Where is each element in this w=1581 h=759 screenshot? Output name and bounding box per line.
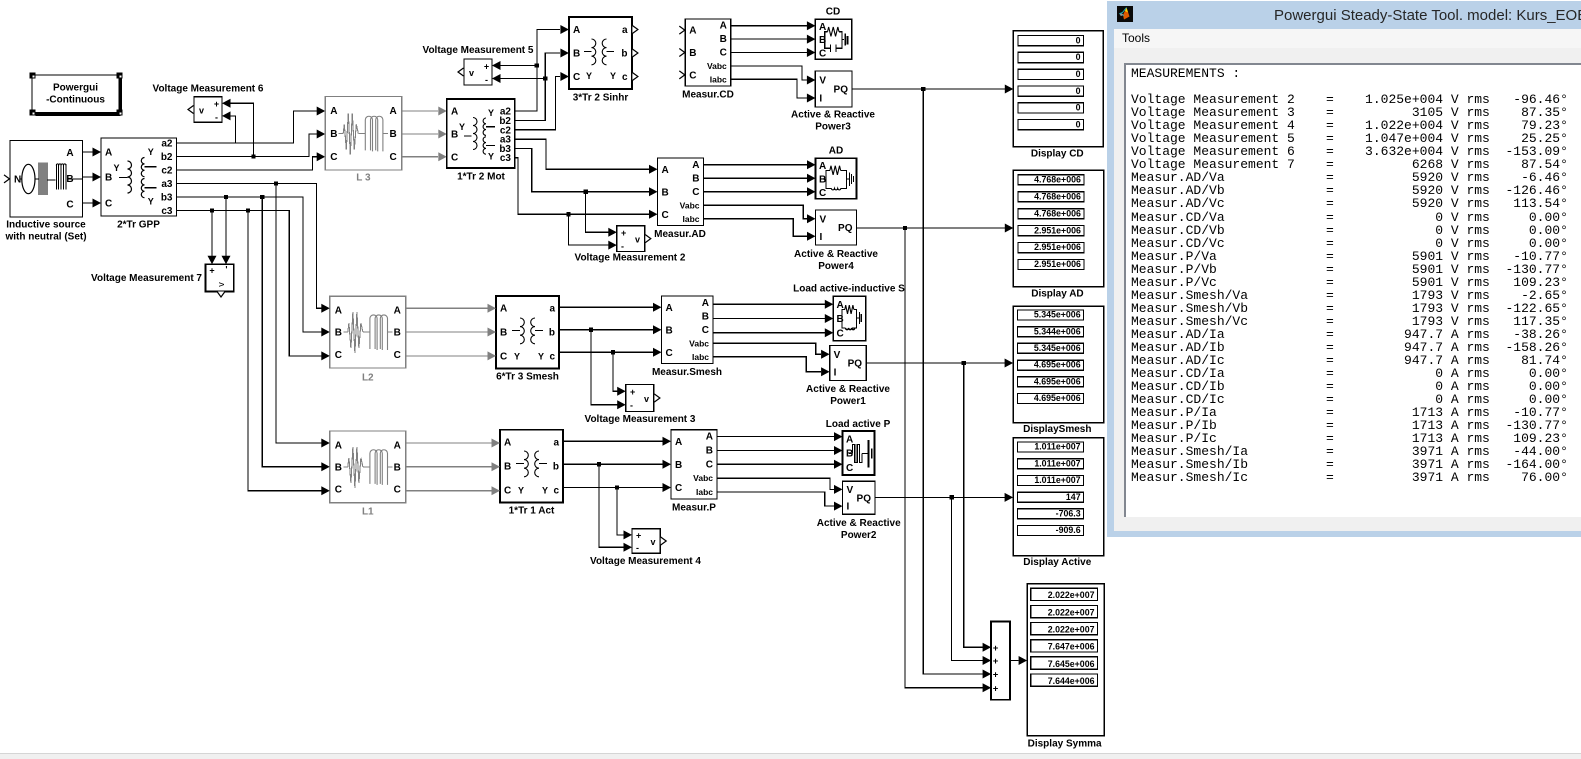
svg-text:C: C <box>335 350 342 361</box>
svg-text:Load active-inductive S: Load active-inductive S <box>793 284 905 295</box>
svg-text:Active & Reactive: Active & Reactive <box>806 384 890 395</box>
svg-text:0: 0 <box>1076 103 1081 113</box>
svg-text:A: A <box>692 160 699 171</box>
svg-text:PQ: PQ <box>857 493 872 504</box>
wire L3 B to Mot B <box>402 133 438 135</box>
svg-text:C: C <box>666 348 673 359</box>
svg-text:Vabc: Vabc <box>689 338 709 348</box>
svg-text:Measur.Smesh: Measur.Smesh <box>652 367 722 378</box>
junction dot at 276, 183.5 <box>274 181 278 185</box>
wire Measur.P C to Load P C <box>717 463 834 465</box>
svg-text:B: B <box>837 314 844 325</box>
svg-text:C: C <box>692 187 699 198</box>
wire Power3 PQ to Display CD and junction <box>852 88 1005 90</box>
svg-text:+: + <box>636 531 641 541</box>
voltage measurement block VM2 Voltage Measurement 2 <box>575 226 686 264</box>
inductance block L1 <box>330 431 406 518</box>
svg-text:2.951e+006: 2.951e+006 <box>1034 242 1081 252</box>
wire Act a to Measur.P A <box>563 440 663 442</box>
svg-text:B: B <box>720 34 727 45</box>
svg-text:L 3: L 3 <box>356 173 371 184</box>
svg-text:Iabc: Iabc <box>696 487 713 497</box>
wire Power4 PQ to Display AD and junction <box>857 227 1006 229</box>
svg-text:A: A <box>330 106 337 117</box>
wire Measur.P A to Load P A <box>717 436 834 438</box>
transformer block 6*Tr 3 Smesh <box>496 296 559 383</box>
svg-text:C: C <box>689 70 696 81</box>
svg-text:with neutral (Set): with neutral (Set) <box>4 232 86 243</box>
svg-text:2.022e+007: 2.022e+007 <box>1048 624 1095 634</box>
voltage measurement block VM6 Voltage Measurement 6 <box>153 84 264 123</box>
svg-text:c: c <box>549 351 555 362</box>
wire Power3 junction down to sum input 3 <box>923 89 983 674</box>
svg-text:-: - <box>215 113 218 123</box>
display block Display Active <box>1013 438 1103 569</box>
svg-text:-: - <box>630 401 633 411</box>
svg-text:C: C <box>837 329 844 340</box>
svg-text:+: + <box>209 266 214 276</box>
svg-text:2.022e+007: 2.022e+007 <box>1048 590 1095 600</box>
svg-text:I: I <box>819 94 822 105</box>
svg-text:C: C <box>394 350 401 361</box>
svg-text:-706.3: -706.3 <box>1056 508 1081 518</box>
svg-text:2.022e+007: 2.022e+007 <box>1048 607 1095 617</box>
wire L2 C to Smesh C <box>406 355 488 357</box>
load block Load active P (resistive load) <box>826 419 891 475</box>
wire Measur.AD Iabc to Power4 I <box>704 219 808 237</box>
svg-text:-909.6: -909.6 <box>1056 525 1081 535</box>
wire Measur.Smesh B to Load S B <box>713 318 825 320</box>
svg-text:1*Tr 1 Act: 1*Tr 1 Act <box>509 506 555 517</box>
svg-text:C: C <box>330 152 337 163</box>
wire b3 branch down to L1 B <box>262 197 321 467</box>
power block Active & Reactive Power3 <box>791 71 875 133</box>
svg-text:V: V <box>819 76 826 87</box>
wire L3 A to Mot A <box>402 110 438 112</box>
wire Measur.AD A to AD A <box>704 164 808 166</box>
svg-text:+: + <box>993 670 999 681</box>
wire Smesh b to Measur.Smesh B <box>559 329 653 331</box>
svg-text:A: A <box>504 438 511 449</box>
svg-text:C: C <box>846 463 853 474</box>
wire Power1 PQ to DisplaySmesh and junction <box>866 362 1005 364</box>
wire Measur.Smesh A to Load S A <box>713 303 825 305</box>
wire Measur.CD Iabc to Power3 I <box>731 79 807 98</box>
svg-text:Power2: Power2 <box>841 530 877 541</box>
wire b2 branch to VM6 plus <box>231 103 254 156</box>
svg-text:Active & Reactive: Active & Reactive <box>817 518 901 529</box>
svg-text:0: 0 <box>1076 52 1081 62</box>
wire GPP a3 to L2 A <box>177 184 322 309</box>
svg-text:B: B <box>335 328 342 339</box>
svg-text:4.768e+006: 4.768e+006 <box>1034 191 1081 201</box>
svg-text:Y: Y <box>518 486 524 496</box>
wire GPP c3 to L2 C <box>177 211 322 356</box>
svg-text:A: A <box>66 148 73 159</box>
wire Power2 junction down to sum input 2 <box>952 497 983 660</box>
svg-text:A: A <box>706 432 713 443</box>
svg-text:Y: Y <box>113 163 119 173</box>
svg-text:Active & Reactive: Active & Reactive <box>794 249 878 260</box>
svg-text:-: - <box>636 543 639 553</box>
svg-text:b: b <box>553 462 559 473</box>
wire GPP b2 to L3 B <box>177 134 318 157</box>
wire Power4 junction down to sum input 4 <box>905 228 983 688</box>
svg-text:AD: AD <box>829 146 843 157</box>
wire Measur.P Vabc to Power2 V <box>717 478 834 489</box>
svg-text:c: c <box>622 72 628 83</box>
junction dot at 923.2, 89 <box>921 87 925 91</box>
wire Measur.CD B to CD B <box>731 38 807 40</box>
wire Mot b2 to Sinhr B <box>515 53 560 121</box>
svg-text:+: + <box>993 656 999 667</box>
svg-text:Power4: Power4 <box>818 261 854 272</box>
svg-text:C: C <box>706 459 713 470</box>
wire b2 branch to VM5 minus <box>501 78 546 80</box>
wire L1 C to Act C <box>406 490 492 492</box>
svg-text:N: N <box>14 175 21 186</box>
svg-text:Voltage Measurement 3: Voltage Measurement 3 <box>585 414 696 425</box>
svg-text:B: B <box>662 187 669 198</box>
svg-text:A: A <box>335 306 342 317</box>
svg-text:v: v <box>469 68 474 78</box>
svg-text:0: 0 <box>1076 35 1081 45</box>
svg-text:Display AD: Display AD <box>1031 289 1083 300</box>
svg-text:B: B <box>702 311 709 322</box>
svg-text:C: C <box>819 188 826 199</box>
wire source A to GPP A <box>83 151 93 153</box>
svg-text:a: a <box>553 438 559 449</box>
power block Active & Reactive Power2 <box>817 481 901 541</box>
junction dot at 617, 487.5 <box>615 485 619 489</box>
transformer block 1*Tr 2 Mot <box>447 99 515 183</box>
wire a2 branch to VM6 minus <box>231 116 236 143</box>
svg-text:Display Symma: Display Symma <box>1028 739 1102 750</box>
load block CD (parallel RC load) <box>815 7 851 60</box>
wire Mot a2 to Sinhr A <box>515 30 560 112</box>
junction dot at 599, 464.3 <box>597 462 601 466</box>
svg-text:Measur.P: Measur.P <box>672 503 716 514</box>
wire Measur.AD B to AD B <box>704 177 808 179</box>
svg-text:Y: Y <box>542 486 548 496</box>
svg-text:4.695e+006: 4.695e+006 <box>1034 376 1081 386</box>
power block Active & Reactive Power1 <box>806 346 890 408</box>
svg-text:PQ: PQ <box>834 85 849 96</box>
svg-text:c3: c3 <box>500 153 512 164</box>
wire Mot a3 to Measur.AD A <box>515 139 649 169</box>
wire Smesh b branch to VM3 minus <box>591 330 618 405</box>
svg-text:B: B <box>389 129 396 140</box>
svg-text:A: A <box>666 303 673 314</box>
svg-text:Power3: Power3 <box>815 122 851 133</box>
svg-text:+: + <box>621 228 626 238</box>
svg-text:C: C <box>720 48 727 59</box>
svg-text:Iabc: Iabc <box>710 74 727 84</box>
svg-text:5.345e+006: 5.345e+006 <box>1034 343 1081 353</box>
powergui block Powergui -Continuous <box>30 73 123 117</box>
svg-text:-: - <box>621 242 624 252</box>
wire Measur.Smesh C to Load S C <box>713 332 825 334</box>
svg-text:Y: Y <box>148 197 154 207</box>
wire a2 branch to VM5 plus <box>501 65 537 67</box>
svg-text:-Continuous: -Continuous <box>46 95 105 106</box>
svg-text:1*Tr 2 Mot: 1*Tr 2 Mot <box>457 172 505 183</box>
svg-text:c3: c3 <box>161 206 173 217</box>
wire Measur.P B to Load P B <box>717 450 834 452</box>
junction dot at 951.6, 497.4 <box>949 495 953 499</box>
junction dot at 248, 210.5 <box>246 208 250 212</box>
svg-text:A: A <box>451 107 458 118</box>
svg-text:B: B <box>706 445 713 456</box>
svg-text:Power1: Power1 <box>830 396 866 407</box>
svg-text:C: C <box>451 153 458 164</box>
wire c3 branch to VM2 minus <box>569 214 609 245</box>
svg-text:PQ: PQ <box>848 359 863 370</box>
svg-text:6*Tr 3 Smesh: 6*Tr 3 Smesh <box>496 372 559 383</box>
svg-text:CD: CD <box>826 7 840 18</box>
junction dot at 585.6, 191.8 <box>583 190 587 194</box>
svg-text:': ' <box>225 265 227 275</box>
wire Measur.CD Vabc to Power3 V <box>731 66 807 80</box>
junction dot at 262.2, 197 <box>260 195 264 199</box>
svg-text:C: C <box>504 486 511 497</box>
wire Measur.AD C to AD C <box>704 191 808 193</box>
svg-text:a2: a2 <box>161 139 173 150</box>
svg-text:Y: Y <box>459 122 465 132</box>
svg-text:a3: a3 <box>161 179 173 190</box>
wire a3 branch down to L1 A <box>276 184 322 444</box>
wire Power2 PQ to Display Active and junction <box>875 496 1005 498</box>
svg-text:V: V <box>847 485 854 496</box>
load block AD (parallel RL load) <box>816 146 857 200</box>
svg-text:Y: Y <box>610 71 616 81</box>
svg-text:V: V <box>834 350 841 361</box>
svg-text:147: 147 <box>1066 492 1081 502</box>
svg-text:C: C <box>389 152 396 163</box>
wire Measur.Smesh Vabc to Power1 V <box>713 343 821 354</box>
svg-text:2.951e+006: 2.951e+006 <box>1034 225 1081 235</box>
svg-text:V: V <box>820 214 827 225</box>
measurement block Measur.CD <box>679 19 734 101</box>
svg-text:A: A <box>720 21 727 32</box>
Powergui Steady-State Tool window <box>1107 1 1581 537</box>
wire source C to GPP C <box>83 202 93 204</box>
wire source B to GPP B <box>83 176 93 178</box>
svg-text:c2: c2 <box>161 166 173 177</box>
wire Smesh a to Measur.Smesh A <box>559 306 653 308</box>
measurement block Measur.Smesh <box>652 296 722 378</box>
svg-text:C: C <box>573 72 580 83</box>
junction dot at 212, 210.5 <box>210 208 214 212</box>
wire Smesh c to Measur.Smesh C <box>559 351 653 353</box>
svg-text:Iabc: Iabc <box>682 214 699 224</box>
transformer block 1*Tr 1 Act <box>500 430 563 517</box>
svg-text:C: C <box>394 485 401 496</box>
svg-text:A: A <box>394 306 401 317</box>
svg-text:v: v <box>644 394 649 404</box>
svg-text:PQ: PQ <box>838 223 853 234</box>
svg-text:Y: Y <box>514 352 520 362</box>
svg-text:B: B <box>692 173 699 184</box>
svg-text:C: C <box>66 200 73 211</box>
load block Load active-inductive S (parallel RL load) <box>793 284 905 341</box>
svg-text:4.695e+006: 4.695e+006 <box>1034 360 1081 370</box>
svg-text:v: v <box>650 537 655 547</box>
svg-text:A: A <box>573 25 580 36</box>
measurement block Measur.P <box>671 430 717 514</box>
svg-text:A: A <box>662 165 669 176</box>
wire L2 B to Smesh B <box>406 331 488 333</box>
bottom scrollbar strip <box>0 754 1581 759</box>
svg-text:Y: Y <box>488 108 494 118</box>
svg-text:4.695e+006: 4.695e+006 <box>1034 393 1081 403</box>
voltage measurement block VM7 Voltage Measurement 7 <box>91 264 234 297</box>
svg-text:B: B <box>105 173 112 184</box>
svg-text:+: + <box>630 387 635 397</box>
svg-text:0: 0 <box>1076 69 1081 79</box>
wire L3 C to Mot C <box>402 156 438 158</box>
svg-text:3*Tr 2 Sinhr: 3*Tr 2 Sinhr <box>573 93 629 104</box>
display block Display Symma <box>1027 584 1104 750</box>
wire b3 branch to VM2 plus <box>586 192 609 232</box>
svg-text:c: c <box>553 486 559 497</box>
svg-text:A: A <box>335 441 342 452</box>
junction dot at 226, 197 <box>224 195 228 199</box>
svg-text:B: B <box>394 328 401 339</box>
svg-text:0: 0 <box>1076 119 1081 129</box>
transformer block 3*Tr 2 Sinhr <box>569 17 638 104</box>
svg-text:C: C <box>675 483 682 494</box>
window body <box>1114 48 1581 531</box>
wire Act b to Measur.P B <box>563 463 663 465</box>
svg-text:A: A <box>689 26 696 37</box>
svg-text:b3: b3 <box>161 192 173 203</box>
svg-text:Inductive source: Inductive source <box>6 220 86 231</box>
svg-text:Active & Reactive: Active & Reactive <box>791 110 875 121</box>
svg-text:+: + <box>214 99 219 109</box>
svg-text:2.951e+006: 2.951e+006 <box>1034 259 1081 269</box>
menu bar <box>1114 29 1581 49</box>
wire Act c branch to VM4 plus <box>617 488 624 535</box>
junction dot at 591, 329.8 <box>589 328 593 332</box>
svg-text:B: B <box>66 174 73 185</box>
wire Measur.P Iabc to Power2 I <box>717 492 834 506</box>
svg-text:a: a <box>622 25 628 36</box>
window title bar <box>1107 1 1581 29</box>
svg-text:L2: L2 <box>362 373 374 384</box>
svg-text:C: C <box>335 485 342 496</box>
svg-text:1.011e+007: 1.011e+007 <box>1034 458 1080 468</box>
svg-text:B: B <box>451 130 458 141</box>
wire GPP a2 to L3 A <box>177 111 318 143</box>
svg-text:Voltage Measurement 4: Voltage Measurement 4 <box>590 556 701 567</box>
wire L1 B to Act B <box>406 466 492 468</box>
wire Act c to Measur.P C <box>563 487 663 489</box>
svg-text:7.647e+006: 7.647e+006 <box>1048 642 1095 652</box>
svg-text:A: A <box>105 148 112 159</box>
wire Act b branch to VM4 minus <box>599 464 624 547</box>
svg-text:Vabc: Vabc <box>693 473 713 483</box>
svg-text:Y: Y <box>488 152 494 162</box>
svg-text:B: B <box>666 325 673 336</box>
wire b3 branch down to VM7 minus <box>225 197 227 257</box>
svg-text:A: A <box>394 441 401 452</box>
svg-text:+: + <box>993 683 999 694</box>
svg-text:I: I <box>847 502 850 513</box>
svg-text:a: a <box>549 304 555 315</box>
svg-text:B: B <box>335 462 342 473</box>
svg-text:C: C <box>500 351 507 362</box>
wire c3 branch down to VM7 plus <box>211 211 213 257</box>
wire Measur.Smesh Iabc to Power1 I <box>713 357 821 372</box>
svg-text:4.768e+006: 4.768e+006 <box>1034 208 1081 218</box>
svg-text:Display CD: Display CD <box>1031 149 1084 160</box>
svg-text:Vabc: Vabc <box>680 200 700 210</box>
svg-text:B: B <box>330 129 337 140</box>
svg-text:Voltage Measurement 2: Voltage Measurement 2 <box>575 253 686 264</box>
measurement block Measur.AD <box>654 158 706 240</box>
svg-text:Iabc: Iabc <box>692 352 709 362</box>
svg-text:B: B <box>504 462 511 473</box>
svg-text:Voltage Measurement 7: Voltage Measurement 7 <box>91 273 202 284</box>
svg-text:v: v <box>216 282 226 287</box>
svg-text:Powergui: Powergui <box>53 83 98 94</box>
wire L2 A to Smesh A <box>406 307 488 309</box>
junction dot at 568.5, 214.3 <box>566 212 570 216</box>
svg-text:A: A <box>500 304 507 315</box>
svg-text:C: C <box>662 210 669 221</box>
svg-text:Measur.CD: Measur.CD <box>682 90 734 101</box>
svg-text:5.344e+006: 5.344e+006 <box>1034 326 1081 336</box>
svg-text:1.011e+007: 1.011e+007 <box>1034 442 1080 452</box>
svg-text:v: v <box>199 106 204 116</box>
wire c3 branch down to L1 C <box>248 211 322 491</box>
svg-text:4.768e+006: 4.768e+006 <box>1034 174 1081 184</box>
power block Active & Reactive Power4 <box>794 210 878 272</box>
junction dot at 545.2, 78.5 <box>543 76 547 80</box>
svg-text:+: + <box>484 62 489 72</box>
svg-text:C: C <box>702 325 709 336</box>
svg-text:b2: b2 <box>161 152 173 163</box>
wire Power1 junction down to sum input 1 <box>964 363 983 647</box>
wire Mot c2 to Sinhr C <box>515 77 560 130</box>
sum block (4 plus inputs) <box>991 622 1010 700</box>
wire Smesh c branch to VM3 plus <box>613 352 618 391</box>
svg-text:7.644e+006: 7.644e+006 <box>1048 676 1095 686</box>
svg-text:2*Tr GPP: 2*Tr GPP <box>117 220 160 231</box>
wire L1 A to Act A <box>406 442 492 444</box>
svg-text:B: B <box>394 462 401 473</box>
wire GPP c2 to L3 C <box>177 157 319 170</box>
svg-text:0: 0 <box>1076 86 1081 96</box>
inductance block L2 <box>330 296 406 383</box>
svg-text:Voltage Measurement 5: Voltage Measurement 5 <box>423 45 534 56</box>
wire Measur.AD Vabc to Power4 V <box>704 205 808 219</box>
voltage measurement block VM5 Voltage Measurement 5 <box>423 45 534 85</box>
transformer block 2*Tr GPP <box>101 138 177 231</box>
junction dot at 905, 228 <box>903 226 907 230</box>
junction dot at 253.5, 156.5 <box>251 154 255 158</box>
display block Display CD <box>1013 31 1103 160</box>
display block DisplaySmesh <box>1013 306 1103 435</box>
wire Mot b3 to Measur.AD B <box>515 149 649 192</box>
svg-text:Y: Y <box>538 352 544 362</box>
junction dot at 613, 352.3 <box>611 350 615 354</box>
svg-text:Load active P: Load active P <box>826 419 891 430</box>
wire Measur.CD C to CD C <box>731 52 807 54</box>
junction dot at 963.7, 363 <box>962 361 966 365</box>
svg-text:A: A <box>819 161 826 172</box>
